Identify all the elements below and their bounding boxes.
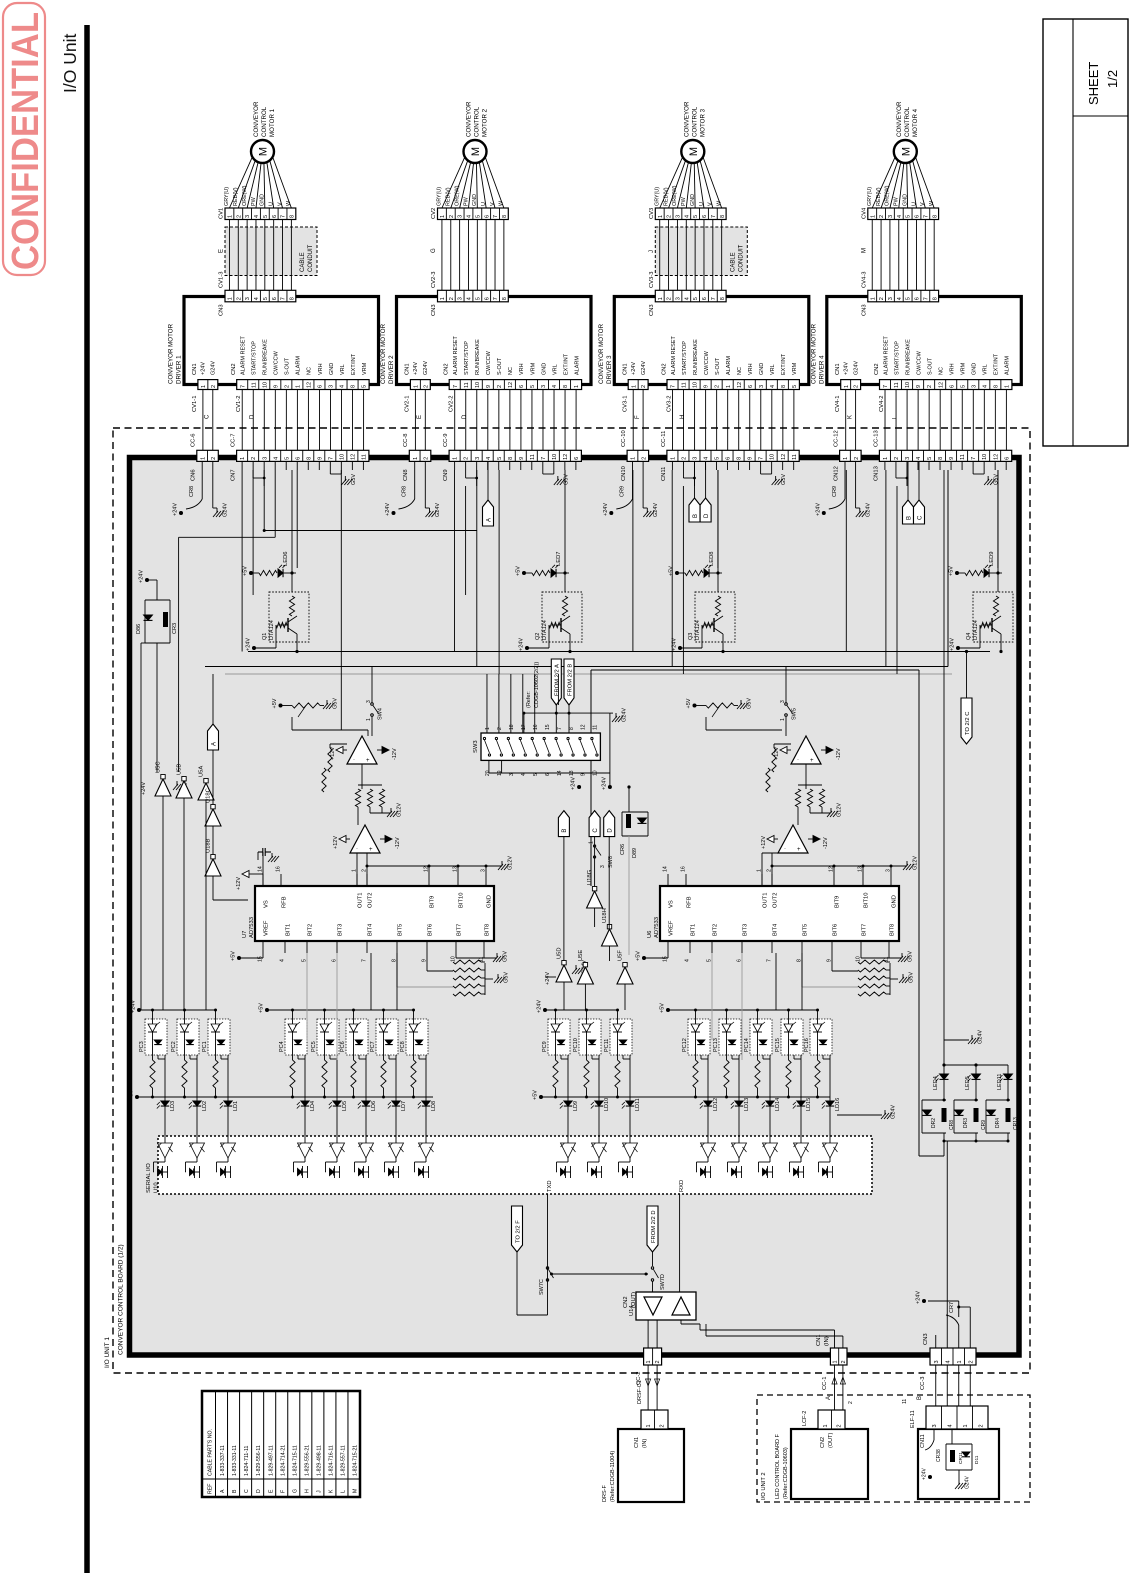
power +24V Q3 — [678, 646, 682, 650]
wire PC4 feed — [292, 1010, 294, 1024]
svg-text:CN1: CN1 — [405, 363, 411, 375]
connector CN2 driver 1 — [237, 380, 369, 390]
svg-text:4: 4 — [273, 457, 279, 460]
LED LD7 — [395, 1055, 397, 1101]
pin 3 GND U6 — [890, 874, 892, 886]
wire CV2-2 — [454, 390, 456, 451]
ground G12V 1 — [390, 808, 392, 813]
connector CC-6 / CN6 — [197, 450, 219, 461]
svg-text:+24V: +24V — [413, 362, 419, 375]
svg-text:TXD: TXD — [547, 1180, 553, 1192]
ground G5V col 2 — [542, 470, 544, 474]
wire flag B down — [563, 837, 565, 963]
wire PC10 feed — [586, 1010, 588, 1024]
photocoupler PC16 — [810, 1019, 832, 1055]
wire elbow under CN9 — [465, 470, 467, 478]
wire LD4 to serial — [304, 1106, 306, 1143]
svg-text:CONVEYOR CONTROL BOARD (1/2): CONVEYOR CONTROL BOARD (1/2) — [118, 1244, 125, 1355]
svg-text:4: 4 — [340, 385, 346, 388]
svg-text:+24V: +24V — [246, 638, 252, 651]
pin 6 BIT3 U7 — [336, 941, 338, 953]
svg-text:6: 6 — [702, 297, 708, 300]
svg-text:3: 3 — [600, 865, 606, 868]
svg-text:1: 1 — [833, 1360, 839, 1363]
svg-text:OUT2: OUT2 — [773, 893, 779, 908]
svg-text:4: 4 — [982, 385, 988, 388]
svg-text:6: 6 — [519, 385, 525, 388]
svg-text:5: 5 — [475, 215, 481, 218]
svg-text:-12V: -12V — [836, 748, 842, 760]
svg-text:3: 3 — [888, 297, 894, 300]
svg-text:BIT9: BIT9 — [835, 896, 841, 908]
transistor serial LD11 — [623, 1169, 627, 1176]
svg-text:+24V: +24V — [201, 362, 207, 375]
svg-text:LD1: LD1 — [233, 1101, 239, 1111]
svg-text:CABLE: CABLE — [730, 252, 736, 272]
svg-text:7: 7 — [453, 385, 459, 388]
wire LD12 to serial — [707, 1106, 709, 1143]
svg-text:CN2: CN2 — [231, 363, 237, 375]
motor M4 (conveyor control motor 4) — [894, 140, 917, 163]
svg-text:8: 8 — [502, 297, 508, 300]
CONFIDENTIAL stamp — [3, 3, 45, 275]
svg-text:SHEET: SHEET — [1086, 62, 1101, 105]
svg-text:1: 1 — [963, 1424, 969, 1427]
svg-text:U10: U10 — [154, 1182, 160, 1193]
svg-text:3: 3 — [245, 297, 251, 300]
svg-text:CC-3: CC-3 — [920, 1376, 926, 1390]
svg-text:2: 2 — [927, 385, 933, 388]
svg-text:CN11: CN11 — [661, 467, 667, 481]
I/O UNIT 2 dashed box — [757, 1395, 1030, 1502]
svg-text:VRM: VRM — [362, 362, 368, 375]
svg-text:CN13: CN13 — [873, 466, 879, 481]
svg-text:6: 6 — [949, 385, 955, 388]
resistor R23 — [819, 789, 824, 807]
svg-text:+5V: +5V — [636, 951, 642, 961]
pin 5 BIT2 U7 — [306, 941, 308, 953]
svg-text:DR2: DR2 — [931, 1118, 937, 1128]
svg-text:+24V: +24V — [385, 503, 391, 516]
svg-text:ALARM: ALARM — [1005, 356, 1011, 375]
svg-text:1-829-556-11: 1-829-556-11 — [256, 1445, 262, 1476]
svg-text:G24V: G24V — [622, 708, 628, 722]
svg-text:6: 6 — [1004, 457, 1010, 460]
svg-text:LED4: LED4 — [933, 1076, 939, 1090]
svg-text:+24V: +24V — [631, 362, 637, 375]
serial I/O driver cell LD11 — [623, 1143, 638, 1158]
svg-text:7: 7 — [328, 457, 334, 460]
switch SW8 — [594, 845, 596, 847]
svg-text:11: 11 — [682, 382, 688, 388]
pin 13 BIT10 U7 — [457, 874, 459, 886]
svg-text:CN8: CN8 — [403, 469, 409, 481]
connector CC-12 / CN12 — [840, 450, 862, 461]
svg-text:I/O UNIT 1: I/O UNIT 1 — [104, 1337, 111, 1368]
ground G24V col 3 — [642, 461, 644, 508]
photocoupler PC5 — [317, 1019, 339, 1055]
connector CC-13 / CN13 — [879, 450, 1011, 461]
wire Q4 emitter — [1000, 642, 1002, 652]
pin 11 BIT8 U7 — [483, 941, 485, 953]
resistor PC5 — [324, 1032, 326, 1060]
svg-text:6: 6 — [484, 215, 490, 218]
svg-text:PW: PW — [681, 196, 687, 206]
svg-text:G5V: G5V — [563, 474, 569, 485]
svg-text:7: 7 — [281, 215, 287, 218]
wire runs from CN7 — [241, 470, 243, 652]
svg-text:CN2: CN2 — [623, 1296, 629, 1308]
switch SW7C — [546, 1267, 548, 1269]
svg-text:12: 12 — [350, 454, 356, 460]
fuse CR7 — [958, 1325, 960, 1348]
svg-text:EXT/INT: EXT/INT — [351, 353, 357, 375]
svg-text:11: 11 — [593, 725, 599, 730]
svg-text:11: 11 — [251, 382, 257, 388]
svg-text:A: A — [220, 1489, 226, 1493]
svg-text:8: 8 — [938, 457, 944, 460]
svg-text:8: 8 — [289, 215, 295, 218]
svg-text:U18G: U18G — [587, 869, 593, 885]
svg-text:START/STOP: START/STOP — [252, 341, 258, 375]
svg-text:1-824-715-21: 1-824-715-21 — [353, 1445, 359, 1476]
resistor R11 — [355, 789, 360, 807]
svg-text:+: + — [810, 758, 814, 764]
wire RXD — [679, 1194, 681, 1292]
wire opamp4 to U6 — [761, 853, 763, 886]
svg-text:6: 6 — [748, 385, 754, 388]
svg-text:D: D — [608, 828, 614, 833]
svg-text:1: 1 — [589, 841, 595, 844]
wire TO 2/2 F — [516, 1252, 518, 1315]
svg-text:U5A: U5A — [199, 766, 205, 777]
pin 10 BIT7 U7 — [455, 941, 457, 953]
svg-text:CC-10: CC-10 — [621, 430, 627, 447]
resistor PC6 — [353, 1032, 355, 1060]
connector CC-9 / CN9 — [449, 450, 581, 461]
svg-text:11: 11 — [530, 454, 536, 460]
motor M1 (conveyor control motor 1) — [251, 140, 274, 163]
connector CV3 — [655, 208, 726, 220]
svg-text:Q3: Q3 — [688, 633, 694, 640]
svg-text:1: 1 — [658, 215, 664, 218]
svg-text:SW4: SW4 — [378, 708, 384, 720]
wire LED6 feed — [291, 470, 293, 592]
capacitor C left — [258, 851, 263, 853]
svg-text:RUN/BREAKE: RUN/BREAKE — [475, 339, 481, 375]
svg-text:5: 5 — [362, 385, 368, 388]
svg-text:ALARM: ALARM — [574, 356, 580, 375]
transistor serial LD9 — [561, 1169, 565, 1176]
svg-text:CONVEYOR MOTOR: CONVEYOR MOTOR — [168, 323, 175, 384]
svg-text:CV4: CV4 — [861, 207, 867, 219]
svg-text:G12V: G12V — [913, 856, 919, 870]
diode DR2 / CR8 — [922, 1099, 946, 1101]
svg-text:AD7533: AD7533 — [654, 917, 660, 938]
LED LD12 — [707, 1055, 709, 1101]
svg-text:GND: GND — [329, 363, 335, 375]
svg-text:M: M — [470, 147, 482, 156]
svg-text:BIT1: BIT1 — [286, 924, 292, 936]
pin 1 OUT1 U6 — [761, 874, 763, 886]
svg-text:DR3: DR3 — [963, 1118, 969, 1128]
wire fan motor 2 to CV2 — [442, 157, 465, 208]
svg-text:1: 1 — [646, 1360, 652, 1363]
svg-text:VRH: VRH — [318, 363, 324, 375]
wire CV3-1 — [632, 390, 634, 451]
svg-text:11: 11 — [464, 382, 470, 388]
svg-text:2: 2 — [424, 457, 430, 460]
wires ladder feeds U6 — [801, 953, 803, 987]
wire CV4-1 — [845, 390, 847, 451]
svg-text:11: 11 — [894, 382, 900, 388]
svg-text:2: 2 — [841, 1360, 847, 1363]
svg-text:K: K — [328, 1489, 334, 1493]
svg-text:5: 5 — [927, 457, 933, 460]
svg-text:5: 5 — [693, 215, 699, 218]
connector CN2 LED control board — [818, 1410, 845, 1429]
wire stubs under CN7 — [241, 461, 243, 470]
svg-text:H: H — [680, 415, 686, 419]
wire fan motor 1 to CV1 — [229, 157, 252, 208]
svg-text:+24V: +24V — [537, 1000, 543, 1013]
wire LD8 to serial — [425, 1106, 427, 1143]
svg-text:4: 4 — [770, 385, 776, 388]
svg-text:2: 2 — [236, 297, 242, 300]
svg-text:CN9: CN9 — [443, 469, 449, 481]
svg-text:ORE(W): ORE(W) — [672, 185, 678, 206]
svg-text:V: V — [490, 202, 496, 206]
wire SW3 feeds — [486, 674, 488, 733]
power +5V U6 — [642, 956, 646, 960]
svg-text:1: 1 — [352, 869, 358, 872]
wire PC6 feed — [353, 1010, 355, 1024]
svg-text:1: 1 — [843, 457, 849, 460]
flag B col4 — [907, 461, 909, 500]
wire LD2 to serial — [196, 1106, 198, 1143]
svg-text:CONDUIT: CONDUIT — [308, 244, 314, 272]
svg-text:G5V: G5V — [503, 951, 509, 962]
flag A left — [208, 724, 219, 750]
svg-text:LD4: LD4 — [310, 1101, 316, 1111]
pin 7 BIT4 U6 — [771, 941, 773, 953]
svg-text:5: 5 — [475, 297, 481, 300]
wire PC5 feed — [324, 1010, 326, 1024]
svg-text:10: 10 — [770, 454, 776, 460]
pin 16 RFB U6 — [685, 874, 687, 886]
svg-text:2: 2 — [659, 1424, 665, 1427]
svg-text:D89: D89 — [632, 848, 638, 858]
svg-text:+24V: +24V — [571, 777, 577, 790]
svg-text:3: 3 — [888, 215, 894, 218]
svg-text:B: B — [693, 514, 699, 518]
svg-text:(Refer:CDGB-10603): (Refer:CDGB-10603) — [783, 1447, 789, 1499]
svg-text:4: 4 — [467, 297, 473, 300]
svg-text:B: B — [562, 829, 568, 833]
LED LD3 — [164, 1055, 166, 1101]
svg-text:3: 3 — [458, 215, 464, 218]
svg-text:7: 7 — [923, 297, 929, 300]
LED LD4 — [304, 1055, 306, 1101]
svg-text:RUN/BREAKE: RUN/BREAKE — [263, 339, 269, 375]
transistor serial LD16 — [823, 1169, 827, 1176]
svg-text:ALARM RESET: ALARM RESET — [241, 336, 247, 375]
svg-text:9: 9 — [916, 385, 922, 388]
svg-text:G24V: G24V — [978, 1030, 984, 1044]
wire stubs under CN9 — [454, 461, 456, 470]
connector CC-8 / CN8 — [409, 450, 431, 461]
svg-text:VRM: VRM — [961, 362, 967, 375]
switch SW5 — [693, 704, 697, 708]
svg-text:VS: VS — [669, 900, 675, 908]
svg-text:3: 3 — [780, 700, 786, 703]
svg-text:+24V: +24V — [843, 362, 849, 375]
svg-text:PW: PW — [894, 196, 900, 206]
power +24V EMG — [928, 1475, 932, 1479]
svg-text:12: 12 — [781, 454, 787, 460]
connector CN3 board — [930, 1348, 976, 1365]
serial I/O driver cell LD16 — [823, 1143, 838, 1158]
svg-text:VRL: VRL — [552, 364, 558, 375]
svg-text:PC15: PC15 — [775, 1038, 781, 1052]
svg-text:1-829-497-11: 1-829-497-11 — [268, 1445, 274, 1476]
LED LD5 — [336, 1055, 338, 1101]
svg-text:2: 2 — [211, 385, 217, 388]
wire CV1-2 — [241, 390, 243, 451]
svg-text:AD7533: AD7533 — [249, 917, 255, 938]
svg-text:8: 8 — [569, 727, 575, 730]
connector CN1 driver 3 — [628, 380, 648, 390]
svg-text:CR3: CR3 — [172, 623, 178, 634]
svg-text:10: 10 — [982, 454, 988, 460]
svg-text:PC3: PC3 — [139, 1041, 145, 1052]
svg-text:+5V: +5V — [243, 566, 249, 576]
svg-text:G24V: G24V — [423, 361, 429, 375]
svg-text:5: 5 — [693, 297, 699, 300]
svg-text:CC-11: CC-11 — [661, 431, 667, 447]
buffer U5B — [176, 781, 192, 798]
diode DR4 / CR13 — [986, 1099, 1010, 1101]
svg-text:CN2: CN2 — [820, 1437, 826, 1448]
svg-text:CN1: CN1 — [835, 363, 841, 375]
svg-text:TO 2/2 C: TO 2/2 C — [965, 712, 971, 735]
wire left rail — [156, 580, 158, 600]
transistor Q3 DTA124 — [695, 592, 735, 642]
resistor R22 — [807, 789, 812, 807]
power +24V PC group 3 — [543, 1008, 547, 1012]
svg-text:CV2-3: CV2-3 — [431, 272, 437, 288]
svg-text:8: 8 — [502, 215, 508, 218]
svg-text:8: 8 — [306, 457, 312, 460]
svg-text:1: 1 — [440, 297, 446, 300]
svg-text:+24V: +24V — [601, 777, 607, 790]
conveyor motor driver 3 box — [614, 297, 809, 385]
svg-text:3: 3 — [971, 385, 977, 388]
svg-text:S-OUT: S-OUT — [715, 357, 721, 375]
svg-text:VRL: VRL — [340, 364, 346, 375]
pin 2 OUT2 U7 — [366, 874, 368, 886]
wire LED rail bottom — [944, 1140, 1008, 1142]
svg-text:GRY(U): GRY(U) — [437, 187, 443, 206]
svg-text:SW3: SW3 — [473, 740, 479, 753]
svg-text:VRH: VRH — [950, 363, 956, 375]
photocoupler PC6 — [346, 1019, 368, 1055]
power +24V node col 1 — [201, 461, 203, 499]
pin 8 BIT5 U7 — [396, 941, 398, 953]
svg-text:CV3-3: CV3-3 — [649, 272, 655, 288]
svg-text:1: 1 — [631, 457, 637, 460]
svg-text:BIT6: BIT6 — [833, 924, 839, 936]
resistor PC16 — [817, 1032, 819, 1060]
resistor ladder U6 — [858, 960, 886, 964]
svg-text:-12V: -12V — [823, 837, 829, 849]
wire bus 3 (gray) — [225, 673, 952, 675]
flag FROM 2/2 B — [564, 659, 574, 705]
wire CV2-1 — [414, 390, 416, 451]
power +5V PC group 2 — [265, 1008, 269, 1012]
wire LD15 to serial — [800, 1106, 802, 1143]
photocoupler PC2 — [177, 1019, 199, 1055]
svg-text:(Refer:: (Refer: — [526, 691, 532, 708]
ground G24V after LD16 — [837, 1114, 882, 1116]
svg-text:+: + — [366, 758, 370, 764]
svg-text:G5V: G5V — [781, 474, 787, 485]
svg-text:OUT1: OUT1 — [763, 893, 769, 908]
ground G5V col 3 — [760, 470, 762, 474]
svg-text:LED5: LED5 — [965, 1076, 971, 1090]
svg-text:·: · — [784, 846, 786, 852]
pin 12 BIT9 U7 — [428, 874, 430, 886]
svg-text:BIT7: BIT7 — [457, 924, 463, 936]
svg-text:1: 1 — [870, 215, 876, 218]
svg-text:9: 9 — [949, 457, 955, 460]
cable conduit 1 — [225, 227, 317, 276]
svg-text:BIT7: BIT7 — [862, 924, 868, 936]
svg-text:1: 1 — [453, 457, 459, 460]
flag A col2 — [487, 461, 489, 500]
pin 11 BIT8 U6 — [888, 941, 890, 953]
svg-text:1: 1 — [671, 457, 677, 460]
wire PC12 feed — [695, 1010, 697, 1024]
svg-text:8: 8 — [932, 215, 938, 218]
svg-text:12: 12 — [581, 724, 587, 730]
svg-text:NC: NC — [737, 367, 743, 375]
transistor serial LD1 — [221, 1169, 225, 1176]
ground G24V col 1 — [212, 461, 214, 508]
op-amp U4A — [791, 736, 821, 764]
svg-text:D: D — [256, 1489, 262, 1493]
svg-text:+12V: +12V — [236, 877, 242, 890]
svg-text:3: 3 — [934, 1360, 940, 1363]
photocoupler PC7 — [376, 1019, 398, 1055]
svg-text:CV1-3: CV1-3 — [219, 272, 225, 288]
svg-text:-12V: -12V — [395, 837, 401, 849]
svg-text:8: 8 — [351, 385, 357, 388]
LED LD14 — [769, 1055, 771, 1101]
svg-text:2: 2 — [449, 215, 455, 218]
svg-text:GND: GND — [759, 363, 765, 375]
serial I/O driver cell LD13 — [732, 1143, 747, 1158]
svg-text:11: 11 — [960, 454, 966, 460]
svg-text:CN3: CN3 — [861, 304, 867, 316]
svg-text:G12V: G12V — [397, 803, 403, 817]
svg-text:F: F — [635, 415, 641, 419]
wire runs from CN13 — [845, 470, 847, 652]
transistor Q4 DTA124 — [973, 592, 1013, 642]
svg-text:LD12: LD12 — [713, 1098, 719, 1111]
svg-text:+24V: +24V — [950, 638, 956, 651]
LED LD1 — [227, 1055, 229, 1101]
